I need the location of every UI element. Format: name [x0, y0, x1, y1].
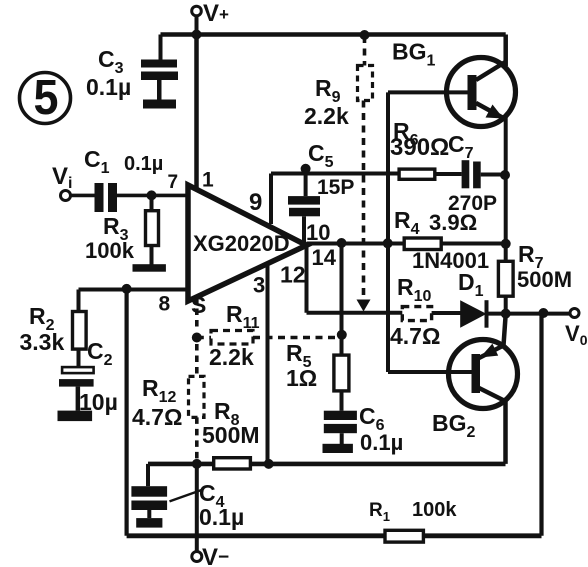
node V+ rail junction [192, 30, 202, 40]
wire R10 to diode D1 [432, 311, 462, 315]
svg-text:1: 1 [202, 169, 214, 192]
svg-text:12: 12 [280, 262, 306, 288]
svg-text:10µ: 10µ [79, 389, 118, 415]
svg-text:10: 10 [306, 220, 330, 245]
resistor R11 (dashed box) [211, 331, 253, 345]
svg-text:3.9Ω: 3.9Ω [429, 210, 477, 235]
wire right rail (BG1 emitter down to R7) [504, 117, 508, 261]
node R9 top junction [360, 30, 370, 40]
svg-text:4.7Ω: 4.7Ω [390, 323, 440, 349]
transistor Q1 BG1 [447, 58, 516, 127]
wire pin 9 riser [269, 174, 273, 225]
node pin3/R8 junction [264, 459, 274, 469]
transistor Q2 BG2 [449, 314, 518, 409]
svg-text:0.1µ: 0.1µ [360, 430, 403, 455]
resistor R7 [498, 261, 513, 296]
op-amp U1 XG2020D triangle [188, 185, 307, 301]
svg-text:V−: V− [202, 544, 229, 567]
wire R8 row [148, 462, 506, 467]
capacitor C3 [141, 35, 178, 109]
node output/collector junction [501, 309, 511, 319]
capacitor C2 (electrolytic) [58, 349, 94, 421]
wire R2 / pin 8 row [79, 288, 189, 292]
svg-text:2.2k: 2.2k [304, 103, 349, 129]
node R11/R5 junction [337, 330, 347, 340]
node input/R3 junction [147, 190, 157, 200]
resistor R3 [146, 211, 159, 246]
wire input Vi to C1 [71, 194, 95, 198]
wire bottom rail (V- row with R1) [127, 533, 542, 538]
capacitor C1 [95, 183, 118, 212]
svg-text:100k: 100k [412, 499, 457, 521]
capacitor C7 [462, 160, 481, 188]
terminal V0 [570, 309, 579, 318]
capacitor C6 [323, 411, 357, 453]
node C7 right junction [500, 170, 510, 180]
node R4 left junction [383, 238, 393, 248]
svg-text:S: S [191, 292, 206, 318]
wire right rail upper (collector BG1 to top) [503, 35, 508, 67]
terminal V- [192, 552, 202, 562]
wire V+ stub [195, 15, 199, 35]
resistor R10 (dashed box) [402, 307, 431, 321]
wire V- stub [195, 464, 199, 552]
R9 dashed lead top [363, 36, 367, 66]
node C5 top junction [301, 164, 311, 174]
R11 dashed leads [197, 336, 342, 340]
svg-text:XG2020D: XG2020D [193, 231, 290, 256]
wire BG2 emitter drop [503, 401, 508, 464]
svg-text:500M: 500M [202, 422, 260, 448]
svg-text:500M: 500M [517, 267, 572, 292]
svg-text:390Ω: 390Ω [390, 134, 449, 161]
capacitor C5 [288, 169, 320, 244]
node V-/R8 junction [192, 459, 202, 469]
wire BG1 base [388, 90, 468, 94]
node S junction dot [192, 333, 202, 343]
svg-text:3: 3 [253, 273, 265, 298]
wire diode cathode to output terminal [487, 312, 571, 316]
wire C4 corner lead [146, 464, 150, 486]
terminal Vi [61, 191, 71, 201]
resistor R12 (dashed box) [189, 376, 205, 417]
svg-text:0.1µ: 0.1µ [86, 74, 131, 100]
svg-text:4.7Ω: 4.7Ω [132, 404, 182, 430]
svg-text:0.1µ: 0.1µ [124, 153, 163, 175]
R12 dashed lead top [195, 344, 199, 376]
wire R5 branch from output row [340, 242, 344, 411]
svg-text:9: 9 [249, 189, 262, 216]
capacitor C4 [131, 486, 203, 527]
resistor R8 [214, 458, 251, 469]
R12 dashed lead bottom [195, 417, 199, 462]
svg-text:1N4001: 1N4001 [412, 248, 489, 273]
wire pin 12 drop and lower rail to R10 [307, 245, 403, 312]
resistor R1 [385, 530, 423, 542]
node R4 right junction [501, 239, 511, 249]
wire R7 bottom to output node [504, 296, 508, 313]
wire BG2 base [388, 370, 472, 374]
resistor R4 [404, 238, 441, 250]
svg-text:2.2k: 2.2k [209, 344, 254, 370]
node pin10/R5 junction [337, 238, 347, 248]
wire right rail (output to bottom) [539, 314, 543, 536]
resistor R9 (dashed box) [358, 66, 373, 101]
svg-text:1Ω: 1Ω [286, 365, 317, 391]
figure number 5 badge [20, 71, 71, 125]
R9 arrowhead at lower rail [357, 300, 371, 312]
resistor R2 [73, 312, 87, 350]
node pin8/left rail junction [122, 284, 132, 294]
wire R3 leads [150, 195, 154, 265]
R9 dashed lead bottom [362, 101, 366, 300]
ground bar below R3 [133, 264, 166, 272]
wire pin 3 drop [266, 264, 270, 464]
svg-text:15P: 15P [317, 176, 354, 199]
svg-text:0.1µ: 0.1µ [199, 504, 244, 530]
wire top rail [161, 32, 506, 37]
node output/R1 junction [538, 308, 548, 318]
wire C5/R6/C7 row [271, 174, 506, 175]
wire op-amp output row / R4 row [307, 242, 506, 246]
wire left rail [124, 289, 128, 536]
resistor R6 [399, 169, 435, 179]
terminal V+ [192, 6, 202, 16]
svg-text:3.3k: 3.3k [20, 329, 65, 355]
wire mid rail (BG1 base / R6 / R4 / BG2 base) [386, 92, 390, 372]
pin S dashed lead [195, 297, 199, 330]
diode D1 (1N4001) [460, 300, 488, 328]
svg-text:14: 14 [312, 245, 337, 270]
svg-text:7: 7 [168, 172, 179, 193]
svg-text:100k: 100k [85, 238, 135, 263]
svg-text:V+: V+ [203, 0, 229, 27]
svg-text:8: 8 [159, 293, 171, 316]
wire pin 1 drop [194, 35, 199, 189]
svg-text:5: 5 [34, 71, 59, 125]
wire R2 corner lead [77, 290, 81, 312]
resistor R5 [334, 355, 349, 391]
wire C1 to op-amp pin 7 [117, 194, 188, 198]
